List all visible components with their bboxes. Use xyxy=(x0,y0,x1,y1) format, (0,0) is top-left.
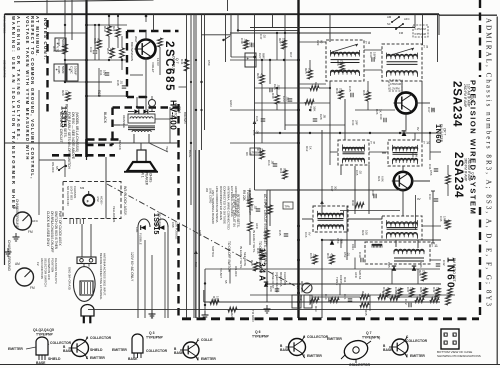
svg-text:C38: C38 xyxy=(394,287,398,293)
svg-text:S3: S3 xyxy=(387,22,391,26)
svg-text:VOLTAGE TAKEN WITH VTVM MEASUR: VOLTAGE TAKEN WITH VTVM MEASURED WITH xyxy=(25,16,30,161)
svg-text:47: 47 xyxy=(249,152,253,156)
svg-text:C53: C53 xyxy=(336,238,340,244)
svg-text:AM: AM xyxy=(387,15,392,19)
svg-text:BEFORE CONNECTING EXTERNAL: BEFORE CONNECTING EXTERNAL xyxy=(99,253,103,300)
svg-text:Q 6: Q 6 xyxy=(255,330,261,334)
svg-text:R9: R9 xyxy=(245,152,249,156)
svg-text:BASE: BASE xyxy=(174,351,184,355)
svg-text:TO ON-OFF SWITCH: TO ON-OFF SWITCH xyxy=(227,241,231,273)
svg-text:ADMIRAL, Chassis numbers 8R3,: ADMIRAL, Chassis numbers 8R3, A; 8S3, A,… xyxy=(485,18,493,308)
svg-text:TPA: TPA xyxy=(285,204,290,208)
svg-text:C50: C50 xyxy=(207,60,211,66)
svg-text:1ST AM IF AMP: 1ST AM IF AMP xyxy=(467,84,471,107)
svg-text:TONE CONT.: TONE CONT. xyxy=(271,272,275,289)
svg-text:Q 4: Q 4 xyxy=(470,98,474,103)
svg-text:8MF: 8MF xyxy=(262,53,266,59)
svg-text:680: 680 xyxy=(97,38,101,43)
svg-text:EMITTER: EMITTER xyxy=(112,348,127,352)
svg-text:YELLOW M4: YELLOW M4 xyxy=(112,206,116,223)
svg-text:CR 8: CR 8 xyxy=(177,106,181,113)
svg-text:0V: 0V xyxy=(416,127,420,131)
svg-text:Q 7: Q 7 xyxy=(366,331,372,335)
svg-text:R18: R18 xyxy=(362,90,366,96)
svg-text:SHIELD: SHIELD xyxy=(90,348,103,352)
svg-text:R40: R40 xyxy=(411,152,415,158)
svg-text:18PF: 18PF xyxy=(373,52,377,59)
svg-text:EMITTER: EMITTER xyxy=(8,347,23,351)
svg-text:ON-OFF: ON-OFF xyxy=(234,266,238,277)
svg-text:W 1: W 1 xyxy=(141,172,145,178)
svg-text:TO ANT: TO ANT xyxy=(219,268,223,278)
svg-text:SELECTOR SWITCH: SELECTOR SWITCH xyxy=(44,258,48,287)
svg-text:C49: C49 xyxy=(240,38,244,44)
svg-text:10K: 10K xyxy=(308,68,312,73)
svg-text:ANTENNA. WIRE CONNECTED: ANTENNA. WIRE CONNECTED xyxy=(226,186,230,231)
svg-text:R34: R34 xyxy=(343,277,347,283)
svg-text:BASE: BASE xyxy=(280,348,290,352)
svg-text:C35: C35 xyxy=(348,86,352,92)
svg-text:AC/60~: AC/60~ xyxy=(100,196,104,206)
svg-text:CONT.: CONT. xyxy=(339,275,343,284)
svg-text:T 5: T 5 xyxy=(423,45,428,49)
svg-text:AM: AM xyxy=(13,206,18,210)
svg-text:EMITTER: EMITTER xyxy=(307,354,322,358)
svg-text:(USED ONLY IN: (USED ONLY IN xyxy=(275,272,279,292)
svg-text:COLLECTOR: COLLECTOR xyxy=(50,341,72,345)
svg-text:Q 5: Q 5 xyxy=(471,172,475,177)
svg-text:220: 220 xyxy=(260,248,264,253)
svg-text:TYPE(NPN): TYPE(NPN) xyxy=(362,336,380,340)
svg-text:2SA234: 2SA234 xyxy=(451,81,463,127)
svg-text:GRN: GRN xyxy=(198,230,202,236)
svg-text:C48: C48 xyxy=(116,80,120,86)
svg-text:F2: F2 xyxy=(36,262,40,266)
svg-text:C6B: C6B xyxy=(171,222,175,228)
svg-text:4.7K: 4.7K xyxy=(56,46,60,52)
svg-text:C32: C32 xyxy=(89,47,93,53)
svg-text:25K: 25K xyxy=(249,42,253,47)
svg-text:TO GND: TO GND xyxy=(251,310,255,322)
svg-text:2SA234: 2SA234 xyxy=(452,152,464,198)
svg-text:CHASSIS 8S3,8Y3: CHASSIS 8S3,8Y3 xyxy=(54,258,58,284)
svg-text:T 9: T 9 xyxy=(370,141,375,145)
svg-text:C27: C27 xyxy=(258,53,262,59)
svg-text:2.2K: 2.2K xyxy=(260,148,264,154)
svg-text:C25: C25 xyxy=(273,84,277,90)
svg-text:.02: .02 xyxy=(254,205,258,210)
svg-text:R25: R25 xyxy=(304,68,308,74)
svg-text:ALIGNING OR TAKING VOLTAGES.: ALIGNING OR TAKING VOLTAGES. xyxy=(16,16,21,142)
svg-text:R33: R33 xyxy=(314,306,318,312)
svg-text:C36: C36 xyxy=(439,216,443,222)
svg-text:560: 560 xyxy=(283,168,287,173)
svg-text:50MF: 50MF xyxy=(61,66,65,74)
svg-text:BASE: BASE xyxy=(383,348,393,352)
svg-text:R48: R48 xyxy=(250,260,254,266)
svg-text:.05: .05 xyxy=(323,114,327,119)
svg-text:R6: R6 xyxy=(245,42,249,46)
svg-text:39K: 39K xyxy=(313,106,317,111)
svg-text:SHOWN IN AFC: SHOWN IN AFC xyxy=(47,258,51,281)
svg-text:VARISTOR: VARISTOR xyxy=(174,103,178,120)
svg-text:C37: C37 xyxy=(427,107,431,113)
svg-text:R41: R41 xyxy=(382,287,386,293)
svg-text:R39: R39 xyxy=(351,200,355,206)
svg-text:C23: C23 xyxy=(282,96,286,102)
svg-text:POSITION: POSITION xyxy=(51,258,55,272)
svg-text:C33: C33 xyxy=(351,120,355,126)
svg-text:.02: .02 xyxy=(313,253,317,258)
svg-text:T 11: T 11 xyxy=(431,244,438,248)
svg-text:W2: W2 xyxy=(205,188,209,193)
svg-text:BASE: BASE xyxy=(36,361,46,365)
svg-text:BLACK: BLACK xyxy=(103,112,107,124)
svg-text:60: 60 xyxy=(320,40,324,44)
svg-text:C56: C56 xyxy=(429,170,433,176)
svg-text:C52: C52 xyxy=(343,252,347,258)
svg-text:R35: R35 xyxy=(364,310,368,316)
svg-text:C42: C42 xyxy=(442,260,446,266)
svg-text:BLUE: BLUE xyxy=(188,150,192,157)
svg-text:GND 3M~OR A3D: GND 3M~OR A3D xyxy=(68,267,72,290)
svg-text:1PF: 1PF xyxy=(443,216,447,222)
svg-text:C34: C34 xyxy=(369,52,373,58)
svg-text:.005: .005 xyxy=(398,287,402,293)
svg-text:1K: 1K xyxy=(379,109,383,113)
svg-text:SWITCH ON 8S3 IS THEN: SWITCH ON 8S3 IS THEN xyxy=(54,211,58,250)
svg-text:R31 10K: R31 10K xyxy=(300,281,304,293)
svg-text:Q1,Q2,Q4,Q5: Q1,Q2,Q4,Q5 xyxy=(33,328,54,332)
svg-text:S5: S5 xyxy=(224,280,228,284)
svg-text:R44: R44 xyxy=(361,291,365,297)
svg-text:TYPE/PNP: TYPE/PNP xyxy=(36,333,54,337)
svg-text:CR 7: CR 7 xyxy=(443,128,447,135)
svg-text:1K: 1K xyxy=(422,270,426,274)
svg-text:T 8: T 8 xyxy=(365,41,370,45)
svg-text:COLLECTOR: COLLECTOR xyxy=(307,335,329,339)
svg-text:AM: AM xyxy=(15,262,20,266)
svg-text:EMITTER: EMITTER xyxy=(201,357,216,361)
svg-text:SWITCH: SWITCH xyxy=(211,246,215,257)
svg-text:Q 3: Q 3 xyxy=(149,331,155,335)
svg-text:C47: C47 xyxy=(259,34,263,40)
svg-text:GRN: GRN xyxy=(229,100,233,106)
svg-text:1.2V/FM: 1.2V/FM xyxy=(390,88,399,91)
svg-text:R27: R27 xyxy=(278,38,282,44)
svg-text:R28: R28 xyxy=(419,287,423,293)
svg-text:C30C: C30C xyxy=(70,66,74,75)
svg-text:.01: .01 xyxy=(431,107,435,112)
svg-text:12.6V: 12.6V xyxy=(156,58,160,66)
svg-text:AFC: AFC xyxy=(255,223,259,230)
svg-text:0V: 0V xyxy=(417,197,421,201)
svg-text:.01: .01 xyxy=(120,80,124,85)
svg-text:R15: R15 xyxy=(106,48,110,54)
svg-text:ANTENNA ACROSS 300Ω INPUT.: ANTENNA ACROSS 300Ω INPUT. xyxy=(103,253,107,296)
svg-text:4.5V: 4.5V xyxy=(96,196,100,202)
svg-text:C40: C40 xyxy=(358,252,362,258)
svg-text:FM: FM xyxy=(28,230,33,234)
svg-text:SHIELD: SHIELD xyxy=(48,357,61,361)
svg-text:C45: C45 xyxy=(278,230,282,236)
svg-text:1K: 1K xyxy=(309,146,313,150)
svg-text:R28: R28 xyxy=(418,270,422,276)
svg-text:PART OF CLOCK ASSY.: PART OF CLOCK ASSY. xyxy=(58,211,62,246)
svg-text:SEE NOTE: SEE NOTE xyxy=(243,252,247,266)
svg-text:COLLE: COLLE xyxy=(201,338,213,342)
svg-text:R19: R19 xyxy=(335,88,339,94)
svg-text:.05: .05 xyxy=(271,160,275,165)
svg-text:R11: R11 xyxy=(279,168,283,174)
svg-text:0.55V/AM: 0.55V/AM xyxy=(390,83,401,86)
svg-text:18K: 18K xyxy=(216,296,220,301)
svg-text:10K: 10K xyxy=(339,88,343,93)
svg-text:C31: C31 xyxy=(99,70,103,76)
svg-text:BROWN/GRN: BROWN/GRN xyxy=(130,42,134,61)
svg-text:C41: C41 xyxy=(428,164,432,170)
svg-text:SCHEMATIC: SCHEMATIC xyxy=(3,60,7,78)
svg-text:WARNING: USE AN ISOLATION TRAN: WARNING: USE AN ISOLATION TRANSFORMER WH… xyxy=(11,16,16,210)
svg-text:FM RATIO DET.: FM RATIO DET. xyxy=(452,258,456,282)
svg-text:470: 470 xyxy=(260,73,264,78)
svg-text:22K FUSIBLE: 22K FUSIBLE xyxy=(175,222,179,240)
svg-text:100K: 100K xyxy=(282,38,286,45)
svg-text:AC INPUT CIRCUIT: AC INPUT CIRCUIT xyxy=(59,112,63,142)
svg-text:BLK: BLK xyxy=(194,262,198,267)
svg-text:RESPECT TO COMMON GROUND, VOLU: RESPECT TO COMMON GROUND, VOLUME CONTROL… xyxy=(30,16,35,180)
svg-text:LIGHT 8S3: LIGHT 8S3 xyxy=(70,186,74,200)
svg-text:220: 220 xyxy=(410,287,414,292)
svg-text:AC INPUT CIRCUIT IN: AC INPUT CIRCUIT IN xyxy=(232,194,236,227)
svg-text:Q 7: Q 7 xyxy=(175,58,179,64)
svg-text:NO CLOCK ON: NO CLOCK ON xyxy=(66,186,70,206)
svg-text:C37: C37 xyxy=(406,287,410,293)
svg-text:33K: 33K xyxy=(107,26,111,31)
svg-text:VIOLET: VIOLET xyxy=(151,62,155,73)
svg-text:C13: C13 xyxy=(252,130,256,136)
svg-text:30: 30 xyxy=(334,186,338,190)
svg-text:.02: .02 xyxy=(263,34,267,38)
svg-text:T 10: T 10 xyxy=(423,141,430,145)
svg-text:R44: R44 xyxy=(180,59,184,65)
svg-text:TYPE/PNP: TYPE/PNP xyxy=(146,336,164,340)
svg-text:LINE CORD: LINE CORD xyxy=(209,188,213,203)
svg-text:R13: R13 xyxy=(326,253,330,259)
svg-text:DISCONNECTED WHEN: DISCONNECTED WHEN xyxy=(219,186,223,220)
svg-text:R21: R21 xyxy=(112,26,116,32)
svg-text:TYPE/PNP: TYPE/PNP xyxy=(252,335,270,339)
svg-text:C17: C17 xyxy=(330,186,334,192)
svg-text:2ND FM IF AMP: 2ND FM IF AMP xyxy=(463,84,467,107)
svg-text:EMITTER: EMITTER xyxy=(410,354,425,358)
svg-text:C26: C26 xyxy=(255,116,259,122)
svg-text:R8 22K: R8 22K xyxy=(242,190,246,202)
svg-text:CLOCK M3 USED ONLY: CLOCK M3 USED ONLY xyxy=(46,211,50,247)
svg-text:YEL: YEL xyxy=(165,146,169,152)
svg-text:6.8K: 6.8K xyxy=(381,176,385,182)
svg-text:FM: FM xyxy=(399,31,404,35)
svg-text:470: 470 xyxy=(386,287,390,292)
svg-text:IN LATER SETS.: IN LATER SETS. xyxy=(63,112,67,138)
svg-text:R42: R42 xyxy=(432,287,436,293)
svg-text:100MF: 100MF xyxy=(74,66,78,76)
svg-text:BLACK: BLACK xyxy=(118,140,122,150)
svg-text:(MODEL 8R1,A CHASSIS): (MODEL 8R1,A CHASSIS) xyxy=(75,112,79,152)
svg-text:R19: R19 xyxy=(103,26,107,32)
svg-text:CHASSIS): CHASSIS) xyxy=(283,272,287,285)
svg-text:AFC: AFC xyxy=(354,272,358,279)
svg-text:CR1: CR1 xyxy=(135,227,139,233)
svg-text:W3 CLOCK ASSY.: W3 CLOCK ASSY. xyxy=(123,186,127,216)
svg-text:AFC: AFC xyxy=(32,219,39,223)
svg-text:BASE: BASE xyxy=(128,357,138,361)
svg-text:C28: C28 xyxy=(319,114,323,120)
svg-text:1W: 1W xyxy=(65,90,69,95)
svg-text:2PF: 2PF xyxy=(355,120,359,126)
svg-text:SW S4: SW S4 xyxy=(358,270,362,280)
svg-text:3RD FM IF AMP: 3RD FM IF AMP xyxy=(464,158,468,181)
svg-text:470: 470 xyxy=(366,90,370,95)
svg-text:ON 8R1A CHASSIS ON-OFF: ON 8R1A CHASSIS ON-OFF xyxy=(50,211,54,252)
svg-text:R17: R17 xyxy=(289,52,293,58)
svg-text:C39: C39 xyxy=(371,190,375,196)
svg-text:8R3 SERIES: 8R3 SERIES xyxy=(3,16,7,33)
svg-text:R10: R10 xyxy=(256,148,260,154)
svg-text:R20: R20 xyxy=(61,90,65,96)
svg-text:C18: C18 xyxy=(309,253,313,259)
svg-text:EMITTER: EMITTER xyxy=(90,356,105,360)
svg-text:.02: .02 xyxy=(359,170,363,174)
svg-text:C16: C16 xyxy=(304,232,308,238)
svg-text:FUSIBLE: FUSIBLE xyxy=(139,233,143,245)
svg-text:120V 60~AC ONLY: 120V 60~AC ONLY xyxy=(130,252,134,282)
svg-text:390: 390 xyxy=(423,287,427,292)
svg-text:FM: FM xyxy=(30,286,35,290)
svg-text:ON R50 — SEE NOTE ABOVE: ON R50 — SEE NOTE ABOVE xyxy=(71,112,75,160)
svg-text:ORANGE: ORANGE xyxy=(122,115,126,128)
svg-text:1.8K: 1.8K xyxy=(184,59,188,65)
svg-text:.022: .022 xyxy=(286,96,290,102)
svg-text:100: 100 xyxy=(365,230,369,235)
svg-text:R22: R22 xyxy=(314,82,318,88)
svg-text:SHOWING PIN DESIGNATIONS: SHOWING PIN DESIGNATIONS xyxy=(437,354,481,358)
svg-text:R49: R49 xyxy=(212,296,216,302)
svg-text:10K: 10K xyxy=(415,152,419,157)
svg-text:OUT PUT: OUT PUT xyxy=(172,56,176,71)
svg-text:2ND AM IF AMP: 2ND AM IF AMP xyxy=(467,158,471,181)
svg-text:AT MINIMUM.: AT MINIMUM. xyxy=(35,16,40,57)
svg-text:ON-OFF: ON-OFF xyxy=(51,162,55,173)
svg-text:EMITTER: EMITTER xyxy=(327,337,342,341)
svg-text:0.25V/FM: 0.25V/FM xyxy=(415,27,426,31)
svg-text:COLLECTOR: COLLECTOR xyxy=(90,336,112,340)
svg-text:IN EARLY SETS.: IN EARLY SETS. xyxy=(252,230,256,253)
svg-text:CR6: CR6 xyxy=(419,262,423,268)
svg-text:1K: 1K xyxy=(436,287,440,291)
svg-text:C30B: C30B xyxy=(57,66,61,74)
svg-text:R29: R29 xyxy=(230,313,234,319)
svg-text:C15: C15 xyxy=(355,170,359,176)
svg-text:AM FUNCTION: AM FUNCTION xyxy=(40,258,44,279)
svg-text:E: E xyxy=(303,354,305,358)
svg-text:R23: R23 xyxy=(256,73,260,79)
svg-text:BROWN: BROWN xyxy=(183,112,187,124)
svg-text:CR4: CR4 xyxy=(351,244,355,250)
svg-text:R21: R21 xyxy=(377,176,381,182)
svg-text:COLLECTOR: COLLECTOR xyxy=(406,339,428,343)
svg-text:AFC: AFC xyxy=(404,17,410,21)
svg-text:4.5K: 4.5K xyxy=(330,253,334,259)
svg-text:INTERMEDIATE SETS.: INTERMEDIATE SETS. xyxy=(236,194,240,228)
svg-text:0.55V/AM: 0.55V/AM xyxy=(415,32,426,36)
svg-text:IN EARLY SETS.: IN EARLY SETS. xyxy=(239,246,243,269)
svg-text:C30: C30 xyxy=(379,114,383,120)
svg-text:R22: R22 xyxy=(361,230,365,236)
svg-text:E: E xyxy=(197,357,199,361)
svg-text:CR5: CR5 xyxy=(387,262,391,268)
svg-text:C14: C14 xyxy=(267,160,271,166)
svg-text:10V: 10V xyxy=(103,70,107,75)
svg-text:.05: .05 xyxy=(256,130,260,134)
svg-text:COLLECTOR: COLLECTOR xyxy=(349,363,371,367)
svg-text:FOR EARLY SETS ON-OFF SWITCH: FOR EARLY SETS ON-OFF SWITCH xyxy=(67,112,71,170)
svg-text:.005: .005 xyxy=(340,238,344,244)
svg-text:E: E xyxy=(86,356,88,360)
svg-text:R30: R30 xyxy=(271,93,275,99)
svg-text:CONNECTED TO OUTSIDE: CONNECTED TO OUTSIDE xyxy=(223,186,227,224)
svg-text:R18: R18 xyxy=(52,46,56,52)
svg-text:C29: C29 xyxy=(316,40,320,46)
svg-text:R12: R12 xyxy=(305,146,309,152)
svg-text:M3: M3 xyxy=(80,186,84,190)
svg-text:E: E xyxy=(406,354,408,358)
svg-text:1K: 1K xyxy=(340,60,344,64)
svg-text:BASE: BASE xyxy=(63,349,73,353)
svg-text:6V: 6V xyxy=(308,232,312,236)
svg-text:CHASSIS: CHASSIS xyxy=(73,186,77,198)
svg-text:COLLECTOR: COLLECTOR xyxy=(146,349,168,353)
svg-text:225: 225 xyxy=(110,48,114,53)
svg-text:C43: C43 xyxy=(428,194,432,200)
